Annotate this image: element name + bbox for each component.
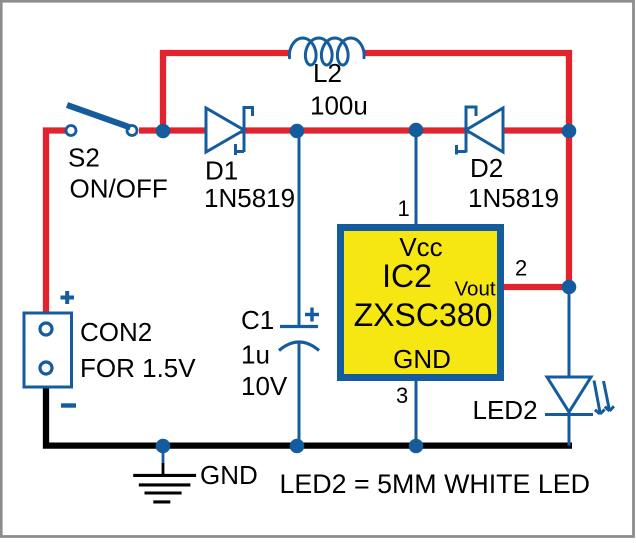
svg-text:2: 2: [515, 256, 527, 281]
svg-text:S2: S2: [68, 143, 100, 173]
svg-text:D1: D1: [205, 156, 238, 186]
svg-text:FOR 1.5V: FOR 1.5V: [80, 353, 196, 383]
svg-text:GND: GND: [200, 460, 258, 490]
svg-text:1: 1: [398, 196, 410, 221]
svg-text:1N5819: 1N5819: [468, 183, 559, 213]
svg-text:LED2 = 5MM WHITE LED: LED2 = 5MM WHITE LED: [280, 469, 590, 499]
svg-text:ON/OFF: ON/OFF: [70, 174, 168, 204]
svg-text:IC2: IC2: [382, 258, 432, 294]
svg-text:GND: GND: [393, 344, 451, 374]
svg-text:1N5819: 1N5819: [204, 183, 295, 213]
svg-text:LED2: LED2: [473, 395, 538, 425]
svg-text:C1: C1: [241, 305, 274, 335]
svg-text:1u: 1u: [241, 340, 270, 370]
svg-text:10V: 10V: [241, 371, 288, 401]
svg-text:L2: L2: [313, 58, 342, 88]
svg-text:ZXSC380: ZXSC380: [354, 297, 493, 333]
svg-text:100u: 100u: [310, 91, 368, 121]
svg-text:D2: D2: [470, 153, 503, 183]
svg-text:3: 3: [396, 383, 408, 408]
svg-text:CON2: CON2: [80, 317, 152, 347]
